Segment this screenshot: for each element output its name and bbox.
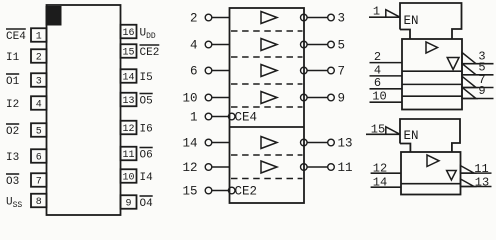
pin 10 label I4 [140, 172, 154, 184]
amplifier symbol [426, 42, 438, 53]
three-state output symbol [447, 171, 457, 181]
amplifier symbol [427, 155, 439, 167]
svg-text:I4: I4 [140, 172, 154, 184]
svg-text:7: 7 [36, 177, 42, 188]
wire to output pin 11 [307, 166, 327, 168]
dashed channel separator [231, 30, 303, 32]
svg-text:9: 9 [125, 199, 131, 210]
element separator [402, 83, 462, 85]
wire output pin 13 [461, 186, 492, 188]
svg-text:1: 1 [190, 111, 198, 125]
svg-text:CE4: CE4 [6, 31, 26, 43]
pin 2 label I1 [6, 52, 20, 64]
svg-text:10: 10 [182, 92, 197, 106]
CE4 enable bubble [228, 113, 235, 120]
logic diagram outline [230, 8, 305, 203]
svg-text:EN: EN [404, 129, 419, 143]
buffer B1 [261, 12, 277, 24]
output bubble row 13 [301, 139, 308, 146]
svg-text:6: 6 [190, 65, 198, 79]
svg-text:I6: I6 [140, 123, 153, 135]
pin 5 box [31, 123, 47, 137]
svg-text:EN: EN [404, 14, 419, 28]
output bubble row 11 [301, 164, 308, 171]
svg-text:8: 8 [36, 197, 42, 208]
svg-text:I2: I2 [6, 99, 19, 111]
internal separator (solid) between CE4 and CE2 groups [230, 126, 305, 128]
polarity indicator pin 9 [462, 87, 476, 98]
svg-text:2: 2 [36, 53, 42, 64]
svg-text:O3: O3 [6, 176, 19, 188]
wire to output pin 7 [307, 70, 327, 72]
buffer B2 [261, 39, 277, 51]
output bubble row 9 [301, 94, 308, 101]
buffer array block (top) [402, 39, 462, 110]
pin 4 label I2 [6, 99, 19, 111]
pin 11 label O6 (active low) [140, 148, 153, 162]
pin 11 box [121, 147, 137, 161]
wire pin 1 to EN [369, 16, 401, 18]
output bubble row 7 [301, 67, 308, 74]
svg-text:5: 5 [36, 127, 42, 138]
wire output pin 11 [461, 172, 492, 174]
output terminal pin 5 [328, 39, 345, 53]
pin 6 box [31, 149, 47, 163]
dashed channel separator [231, 154, 303, 156]
input terminal pin 2 [190, 12, 212, 26]
svg-text:5: 5 [338, 39, 346, 53]
pin 3 label O1 (active low) [6, 74, 20, 88]
wire pin 1 to CE4 [212, 116, 228, 118]
svg-text:7: 7 [338, 65, 346, 79]
pin 13 box [121, 93, 137, 107]
svg-text:13: 13 [122, 96, 134, 107]
svg-text:CE4: CE4 [235, 111, 258, 125]
svg-text:3: 3 [36, 77, 42, 88]
wire input pin 12 [371, 172, 401, 174]
svg-text:13: 13 [338, 137, 353, 151]
svg-text:I5: I5 [140, 72, 153, 84]
input terminal pin 15 (CE2) [182, 185, 211, 199]
wire input pin 10 [370, 101, 403, 103]
pin 9 label O4 (active low) [140, 196, 154, 210]
pin 16 label UDD [140, 27, 156, 41]
wire to output pin 13 [307, 142, 327, 144]
element separator [401, 183, 461, 185]
CE2 enable bubble [228, 187, 235, 194]
pin 16 box [121, 25, 137, 39]
svg-text:O4: O4 [140, 198, 154, 210]
output bubble row 5 [301, 41, 308, 48]
pin 4 box [31, 96, 47, 110]
wire pin 14 to diagram [212, 142, 230, 144]
IC package body U1 [47, 5, 121, 215]
svg-text:16: 16 [122, 28, 134, 39]
wire to output pin 9 [307, 97, 327, 99]
output bubble row 3 [301, 14, 308, 21]
svg-text:O1: O1 [6, 76, 20, 88]
wire output pin 9 [462, 98, 494, 100]
pin 8 label USS [6, 196, 22, 210]
pin 15 box [121, 44, 137, 58]
wire input pin 2 [370, 62, 403, 64]
pin 1 label CE4 (active low) [6, 29, 26, 43]
dashed channel separator [231, 106, 303, 108]
polarity indicator pin 15 [386, 127, 400, 135]
pin 7 label O3 (active low) [6, 174, 19, 188]
svg-text:11: 11 [338, 161, 353, 175]
element separator [402, 70, 462, 72]
buffer B3 [261, 65, 277, 77]
svg-text:1: 1 [36, 32, 42, 43]
pin 13 label O5 (active low) [140, 94, 153, 108]
pin 5 label O2 (active low) [6, 124, 19, 138]
pin 10 box [121, 169, 137, 183]
input terminal pin 10 [182, 92, 211, 106]
svg-text:13: 13 [475, 175, 489, 189]
input terminal pin 4 [190, 39, 212, 53]
input terminal pin 6 [190, 65, 212, 79]
svg-text:4: 4 [190, 39, 198, 53]
wire input pin 14 [371, 186, 401, 188]
pin 15 label CE2 (active low) [140, 45, 160, 59]
EN common control block (bottom) [400, 119, 460, 152]
svg-text:2: 2 [190, 12, 198, 26]
svg-text:CE2: CE2 [140, 47, 160, 59]
svg-text:14: 14 [122, 73, 134, 84]
wire pin 2 to diagram [212, 17, 230, 19]
svg-text:10: 10 [122, 173, 134, 184]
polarity indicator pin 13 [461, 179, 475, 187]
wire output pin 3 [462, 63, 494, 65]
svg-text:4: 4 [36, 100, 42, 111]
dashed channel separator [231, 83, 303, 85]
wire pin 12 to diagram [212, 166, 230, 168]
svg-text:12: 12 [182, 161, 197, 175]
input terminal pin 12 [182, 161, 211, 175]
buffer B4 [261, 92, 277, 104]
svg-text:3: 3 [338, 12, 346, 26]
output terminal pin 9 [328, 92, 345, 106]
wire to output pin 3 [307, 17, 327, 19]
wire pin 15 to CE2 [212, 190, 228, 192]
svg-text:15: 15 [122, 48, 134, 59]
pin 8 box [31, 194, 47, 208]
svg-text:I3: I3 [6, 152, 19, 164]
svg-text:O2: O2 [6, 126, 19, 138]
svg-text:O5: O5 [140, 95, 153, 107]
svg-text:9: 9 [338, 92, 346, 106]
svg-text:CE2: CE2 [235, 185, 258, 199]
polarity indicator pin 5 [462, 64, 476, 75]
wire pin 15 to EN [366, 133, 401, 135]
pin 7 box [31, 173, 47, 187]
pin 12 label I6 [140, 123, 153, 135]
wire output pin 7 [462, 87, 494, 89]
wire output pin 5 [462, 74, 494, 76]
element separator [402, 95, 462, 97]
svg-text:11: 11 [122, 150, 134, 161]
pin 3 box [31, 73, 47, 87]
wire input pin 4 [370, 75, 403, 77]
pin 1 box [31, 28, 47, 42]
EN common control block (top) [400, 3, 462, 39]
three-state output symbol [447, 58, 459, 70]
pin 2 box [31, 49, 47, 63]
output terminal pin 7 [328, 65, 345, 79]
buffer B5 [261, 137, 277, 149]
wire pin 10 to diagram [212, 97, 230, 99]
dashed channel separator [231, 178, 303, 180]
pin 9 box [121, 195, 137, 209]
pin 14 box [121, 69, 137, 83]
svg-text:9: 9 [478, 84, 485, 98]
polarity indicator pin 3 [462, 53, 476, 64]
pin 6 label I3 [6, 152, 19, 164]
svg-text:14: 14 [182, 137, 197, 151]
polarity indicator pin 11 [461, 166, 475, 174]
wire to output pin 5 [307, 44, 327, 46]
svg-text:15: 15 [182, 185, 197, 199]
pin 1 index marker [46, 6, 62, 26]
wire pin 6 to diagram [212, 70, 230, 72]
polarity indicator pin 7 [462, 76, 476, 87]
input terminal pin 1 (CE4) [190, 111, 212, 125]
buffer array block (bottom) [401, 152, 461, 195]
svg-text:12: 12 [122, 124, 134, 135]
pin 12 box [121, 121, 137, 135]
wire pin 4 to diagram [212, 44, 230, 46]
svg-text:6: 6 [36, 153, 42, 164]
svg-text:I1: I1 [6, 52, 20, 64]
svg-text:O6: O6 [140, 149, 153, 161]
polarity indicator pin 1 [386, 10, 400, 18]
output terminal pin 11 [328, 161, 353, 175]
input terminal pin 14 [182, 137, 211, 151]
svg-text:11: 11 [474, 162, 488, 176]
dashed channel separator [231, 56, 303, 58]
wire input pin 6 [370, 88, 403, 90]
output terminal pin 3 [328, 12, 345, 26]
pin 14 label I5 [140, 72, 153, 84]
output terminal pin 13 [328, 137, 353, 151]
buffer B6 [261, 161, 277, 173]
